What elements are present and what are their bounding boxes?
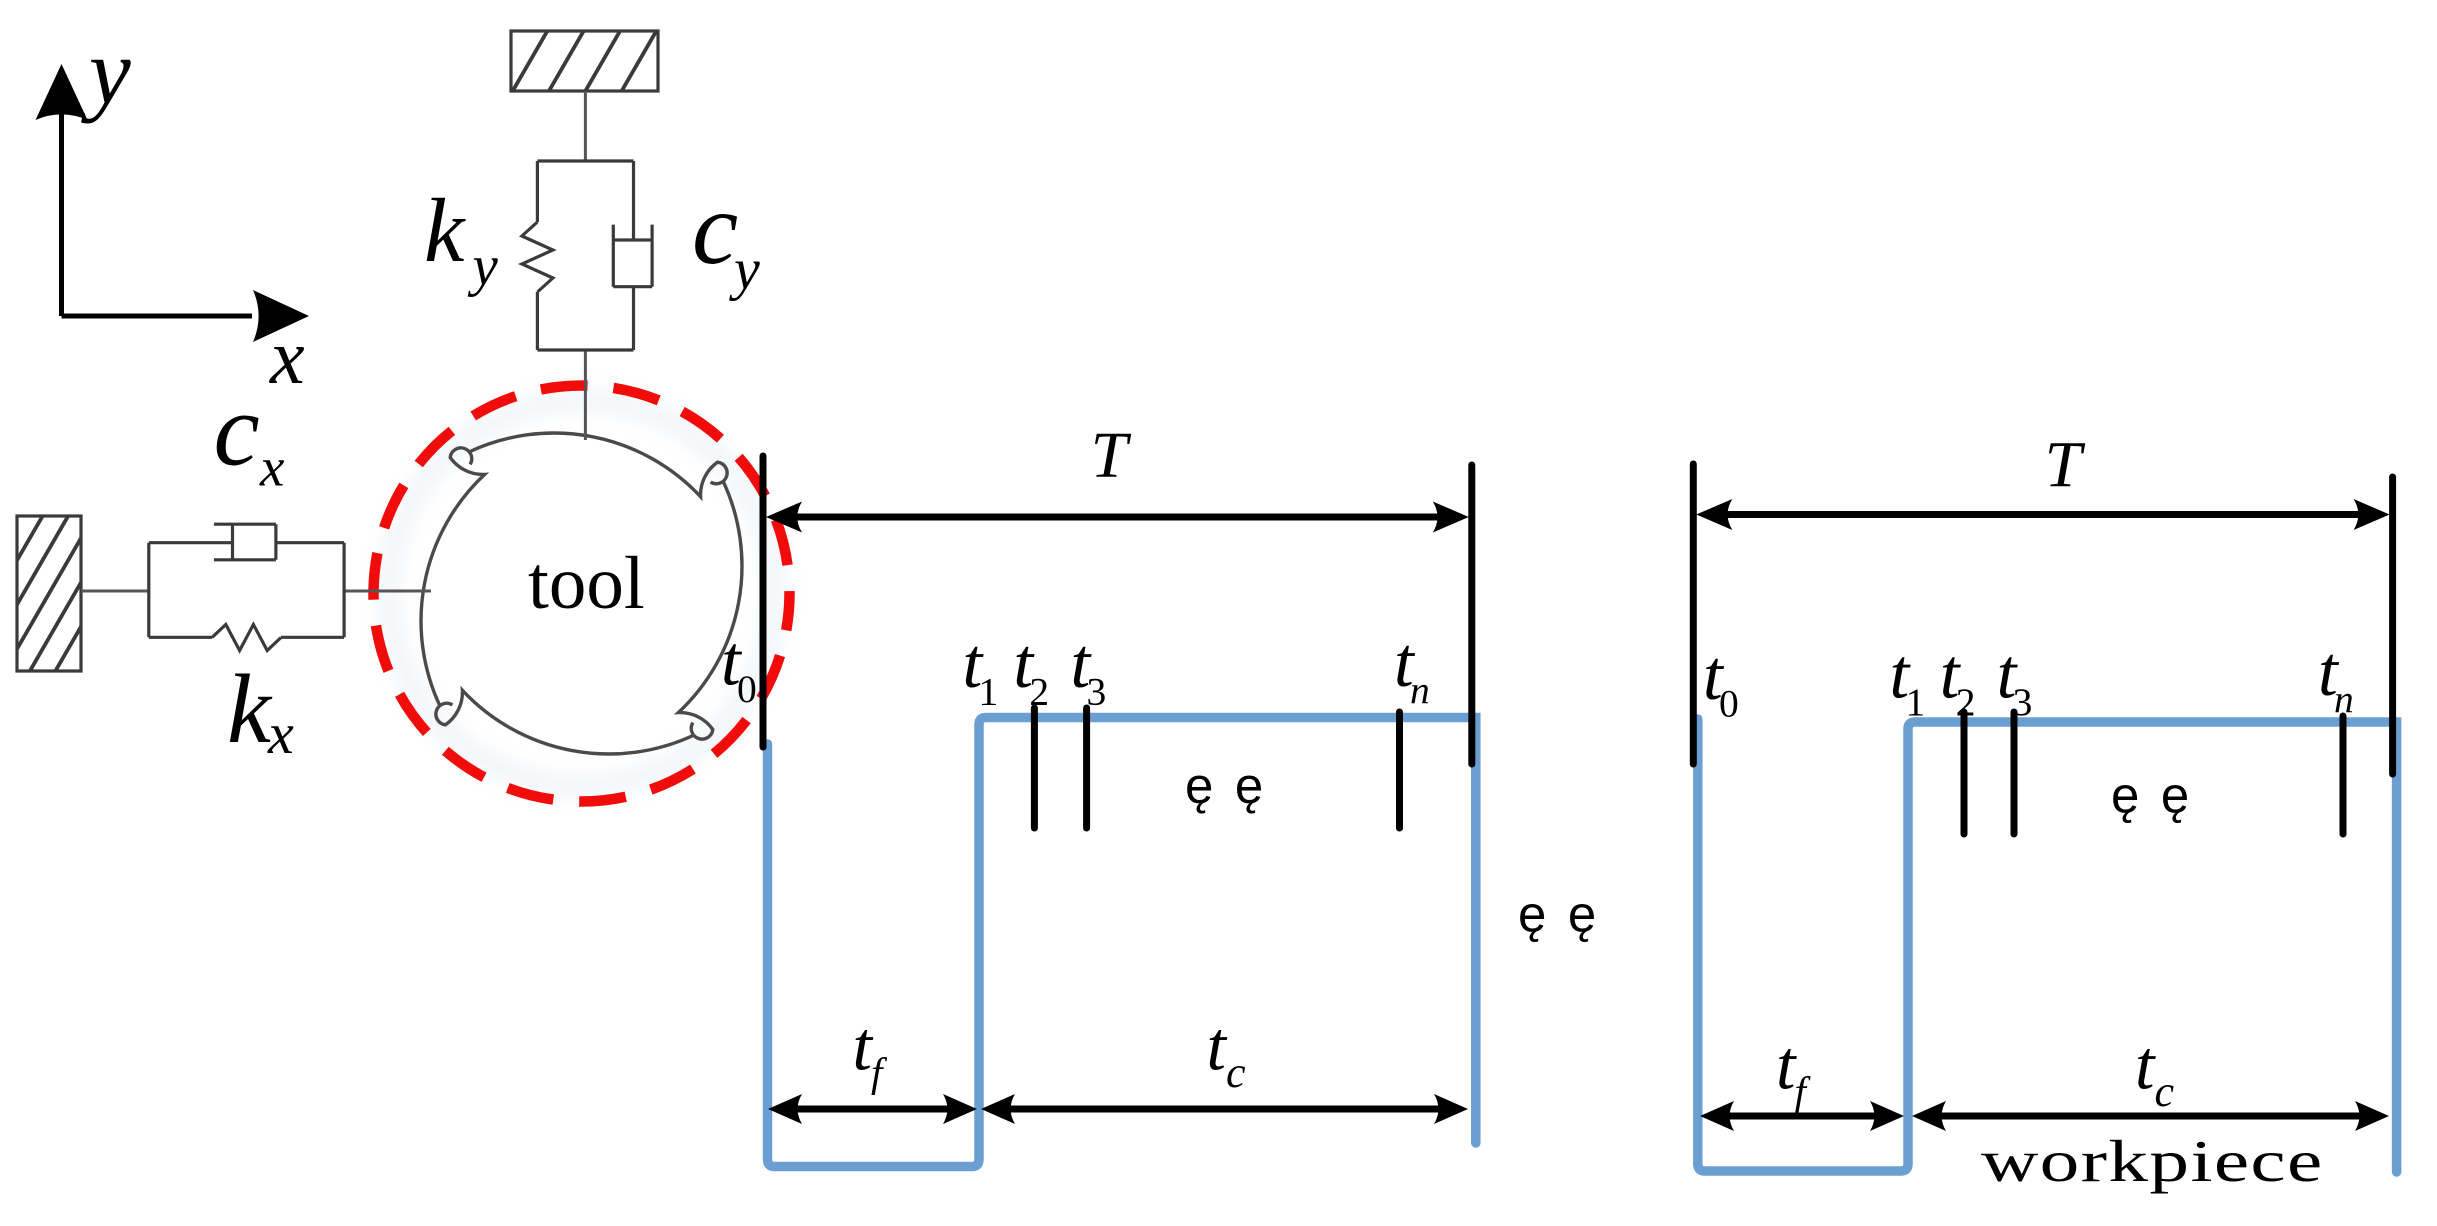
svg-text:c: c xyxy=(1226,1048,1246,1097)
svg-text:c: c xyxy=(214,373,260,488)
svg-text:x: x xyxy=(267,701,294,766)
svg-text:y: y xyxy=(729,237,760,302)
svg-text:2: 2 xyxy=(1956,680,1976,724)
svg-text:ę ę: ę ę xyxy=(1518,886,1600,943)
svg-text:c: c xyxy=(692,171,738,286)
svg-text:T: T xyxy=(2045,429,2086,502)
svg-text:3: 3 xyxy=(2013,680,2033,724)
svg-text:0: 0 xyxy=(737,667,757,711)
svg-text:T: T xyxy=(1091,419,1132,492)
svg-text:n: n xyxy=(2334,678,2354,722)
svg-text:ę ę: ę ę xyxy=(2111,767,2193,824)
svg-text:x: x xyxy=(269,313,305,400)
svg-text:k: k xyxy=(424,180,466,281)
svg-text:ę ę: ę ę xyxy=(1185,757,1267,814)
svg-text:tool: tool xyxy=(528,542,645,625)
svg-text:2: 2 xyxy=(1029,670,1049,714)
svg-text:0: 0 xyxy=(1719,682,1739,726)
svg-text:n: n xyxy=(1410,669,1430,713)
svg-text:c: c xyxy=(2155,1067,2175,1116)
svg-text:3: 3 xyxy=(1087,670,1107,714)
svg-text:t: t xyxy=(1207,1009,1228,1086)
svg-text:1: 1 xyxy=(979,670,999,714)
svg-text:1: 1 xyxy=(1906,680,1926,724)
svg-text:k: k xyxy=(227,655,273,764)
svg-text:y: y xyxy=(81,20,131,124)
svg-text:workpiece: workpiece xyxy=(1981,1130,2324,1195)
svg-text:x: x xyxy=(259,437,285,498)
svg-text:t: t xyxy=(2135,1028,2156,1105)
svg-text:y: y xyxy=(468,235,499,298)
